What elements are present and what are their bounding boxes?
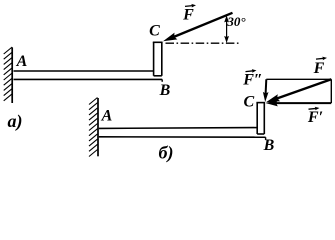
beam AB (fig b) [99,128,266,140]
label F-double-prime (fig b) [242,69,263,88]
svg-text:б): б) [159,143,174,164]
svg-text:B: B [159,82,171,99]
svg-text:F″: F″ [242,72,263,89]
svg-text:C: C [149,23,160,40]
svg-text:F: F [313,60,325,77]
svg-text:B: B [263,137,275,154]
force F (fig b) [266,79,332,102]
force F-prime (fig b) [266,100,332,107]
dash-dot axis line (fig a) [166,42,240,44]
svg-text:F′: F′ [307,109,323,126]
wall hatching (fig a) [4,47,13,101]
wall (fig a) [11,48,13,104]
svg-text:A: A [101,108,113,125]
parallelogram construction lines (fig b) [266,79,331,103]
svg-text:A: A [16,53,28,70]
rod BC (fig b) [256,103,265,134]
wall (fig b) [97,98,99,156]
label F-prime (fig b) [307,107,323,126]
svg-text:C: C [243,94,254,111]
beam AB (fig a) [14,71,163,82]
svg-text:F: F [182,7,194,24]
force F-double-prime (fig b) [263,79,269,102]
label F (fig b) [313,57,327,77]
rod BC (fig a) [153,42,163,76]
svg-text:30°: 30° [226,14,246,29]
wall hatching (fig b) [89,98,98,157]
angle dimension line (fig a) [224,15,229,43]
label F (fig a) [182,4,196,24]
svg-text:а): а) [8,111,23,132]
force F (fig a) [163,13,233,42]
